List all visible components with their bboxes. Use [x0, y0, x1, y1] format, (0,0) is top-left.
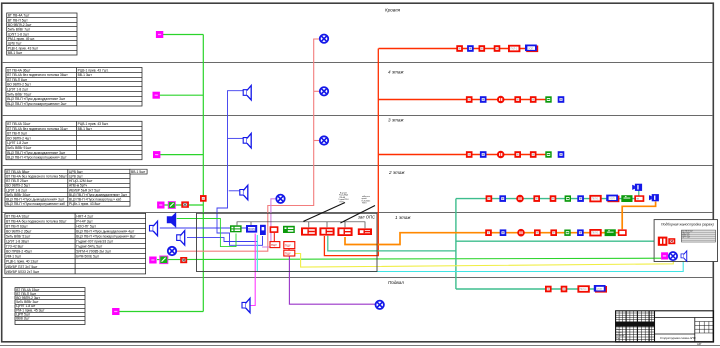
- svg-text:НМТ-4 2шт: НМТ-4 2шт: [76, 214, 93, 218]
- sheet edge line: [0, 345, 720, 347]
- svg-text:ВЦЗ ПВ-П «Пуск пожаротушения»: ВЦЗ ПВ-П «Пуск пожаротушения» каб: [6, 202, 65, 206]
- wire: blue stub 2fl speaker: [229, 190, 240, 192]
- svg-text:ВТ ПВ-4А без подвесного потолк: ВТ ПВ-4А без подвесного потолка 31шт: [7, 127, 68, 131]
- speaker 1fl B: [177, 231, 185, 246]
- wire: teal line to annunciator: [456, 240, 657, 242]
- detector 2fl 7: [577, 195, 584, 202]
- call point basement: [112, 308, 119, 315]
- svg-text:ЦРВ 5шт: ЦРВ 5шт: [69, 170, 83, 174]
- wire: 3fl detector chain: [378, 154, 548, 156]
- wire: green call-point trunk: [202, 35, 204, 312]
- svg-text:Изм.: Изм.: [616, 326, 621, 328]
- detector 2fl 2: [499, 195, 506, 202]
- svg-text:ВЦЗ ПВ-П «Пуск пожаротушения»: ВЦЗ ПВ-П «Пуск пожаротушения» 2шт: [7, 102, 67, 106]
- fire panel PPK-3: [337, 227, 352, 236]
- call point 4fl: [153, 92, 160, 99]
- wire: salmon stub 4fl lamp: [314, 90, 320, 92]
- power unit 1fl: [605, 229, 616, 236]
- start button 1fl: [160, 256, 168, 264]
- svg-text:ГУЗ-42 8шт: ГУЗ-42 8шт: [6, 245, 24, 249]
- svg-text:ЦУ9Т 1-8 2шт: ЦУ9Т 1-8 2шт: [6, 188, 27, 192]
- wire: cyan speaker line: [257, 235, 683, 272]
- svg-text:5иГь ВбВг 70шт: 5иГь ВбВг 70шт: [7, 92, 32, 96]
- value table: cable spec bsmt: [15, 288, 85, 325]
- horn sounder 2fl B: [649, 194, 659, 201]
- svg-text:ВТ ПВ-4А 31шт: ВТ ПВ-4А 31шт: [7, 122, 31, 126]
- wire: plum stub 2fl lamp: [262, 199, 276, 247]
- lamp 4fl: [320, 87, 328, 95]
- svg-text:ВТ ПВ-П 5шт: ВТ ПВ-П 5шт: [8, 18, 28, 22]
- module blue small: [260, 225, 266, 235]
- svg-text:А4Г: А4Г: [697, 342, 702, 346]
- control unit 2fl: [606, 195, 619, 203]
- svg-text:ВЦЗ ПВ-П «Пуск дымоудаления» 3: ВЦЗ ПВ-П «Пуск дымоудаления» 3шт: [69, 193, 127, 197]
- detector 4fl 6: [545, 96, 551, 102]
- detector 2fl 1: [486, 195, 493, 202]
- svg-text:Гъдвиг-54Гц 5шт: Гъдвиг-54Гц 5шт: [76, 245, 102, 249]
- speaker 1fl A: [150, 221, 158, 236]
- wire: purple lamp line basement: [289, 256, 375, 304]
- svg-text:ВТ ПВ-П 9шт: ВТ ПВ-П 9шт: [7, 132, 27, 136]
- detector 2fl row: [181, 201, 189, 207]
- detector roof 4: [494, 45, 501, 52]
- detector basement 2: [561, 286, 568, 293]
- svg-text:РЦВ-1 прив. 40 13шт: РЦВ-1 прив. 40 13шт: [6, 260, 39, 264]
- svg-text:ВЦЗ ПВ-П «Пуск дымоудаления» 4: ВЦЗ ПВ-П «Пуск дымоудаления» 4шт: [76, 229, 134, 233]
- wire: red link boxes: [288, 249, 290, 251]
- svg-text:ВО 9ВП9-2 35шт: ВО 9ВП9-2 35шт: [6, 229, 32, 233]
- svg-text:ВВ-1 5шт: ВВ-1 5шт: [8, 51, 23, 55]
- detector 4fl 3: [497, 96, 505, 104]
- value table: annunciator: [681, 230, 715, 242]
- detector 1fl 2: [500, 229, 507, 236]
- svg-text:ВТ ПВ-4А без подвесного потолк: ВТ ПВ-4А без подвесного потолка 36шт: [7, 73, 68, 77]
- detector 3fl 5: [530, 151, 537, 158]
- speaker annunciator: [681, 251, 687, 261]
- svg-text:ВВ-1 5шт: ВВ-1 5шт: [131, 170, 146, 174]
- svg-text:ЦУ9Т 1-8 38шт: ЦУ9Т 1-8 38шт: [6, 240, 29, 244]
- detector 3fl 6: [545, 151, 551, 157]
- siren 1fl: [618, 229, 627, 236]
- node: 3 floor line: [3, 115, 713, 117]
- detector 3fl 3: [497, 151, 505, 159]
- svg-text:ВЦЗ ПВ-П «Пуск пожаротушения»: ВЦЗ ПВ-П «Пуск пожаротушения» 8шт: [76, 235, 136, 239]
- detector 2fl 3: [516, 195, 524, 203]
- value table: cable spec roof: [7, 13, 77, 55]
- svg-text:ЦУ9Т 2шт: ЦУ9Т 2шт: [682, 237, 690, 239]
- call point roof: [156, 31, 163, 38]
- svg-text:РМ-1 прив. 49 шт.: РМ-1 прив. 49 шт.: [8, 37, 35, 41]
- wire: green stub inside annunciator: [654, 257, 661, 259]
- wire: green stub basement call point: [120, 311, 204, 313]
- svg-text:ВЦЗ ПВ-П «Пуск дымоудаления» 3: ВЦЗ ПВ-П «Пуск дымоудаления» 3шт: [7, 151, 65, 155]
- svg-text:ИМ-1 9шт: ИМ-1 9шт: [6, 255, 21, 259]
- fire panel PPK-1: [301, 227, 317, 235]
- svg-text:ВТ ПВ-4А без подвесного потолк: ВТ ПВ-4А без подвесного потолка 92шт: [6, 219, 67, 223]
- svg-text:Подборная жаностройка (зараж): Подборная жаностройка (зараж): [661, 222, 714, 226]
- control unit basement: [594, 285, 607, 293]
- detector on trunk 2fl: [200, 195, 207, 202]
- svg-text:ВТ ПВ-П 63шт: ВТ ПВ-П 63шт: [6, 224, 28, 228]
- node: control room outline: [197, 213, 378, 271]
- svg-text:5иГь ВбВг 7шт: 5иГь ВбВг 7шт: [8, 28, 31, 32]
- wire: salmon stub 3fl lamp: [314, 140, 320, 142]
- wire: basement notification chain: [456, 288, 598, 290]
- svg-text:ПЦУ: ПЦУ: [285, 243, 291, 247]
- detector 1fl row: [180, 257, 187, 263]
- lamp 1fl: [168, 247, 176, 255]
- detector 4fl 5: [530, 96, 537, 103]
- svg-text:БРМ-500Е 5шт: БРМ-500Е 5шт: [76, 255, 99, 259]
- wire: red link panel to box: [273, 233, 275, 242]
- svg-text:Утв.: Утв.: [616, 338, 621, 340]
- horn sounder 2fl A: [632, 184, 642, 191]
- callout leader B: [340, 206, 375, 224]
- speaker 2fl: [240, 185, 248, 200]
- svg-text:ВО 9ВП9-2 5шт: ВО 9ВП9-2 5шт: [7, 83, 31, 87]
- siren 2fl: [634, 195, 644, 202]
- value table: cable spec 2fl: [5, 169, 147, 206]
- svg-text:ВВВ 2шт: ВВВ 2шт: [16, 317, 30, 321]
- svg-text:ВЦЗ ПВ-П «Пуск дымоудаления» 3: ВЦЗ ПВ-П «Пуск дымоудаления» 3шт: [6, 198, 64, 202]
- wire: yellow lamp line: [295, 254, 674, 268]
- detector 3fl 4: [514, 151, 521, 158]
- wire: orange 1fl loop from panel: [345, 233, 485, 245]
- detector 1fl 1: [485, 229, 492, 236]
- svg-text:ВТ ПВ-4А 36шт: ВТ ПВ-4А 36шт: [7, 68, 31, 72]
- svg-text:ИВУВР 5ЛЗЗ 2х7 5шт: ИВУВР 5ЛЗЗ 2х7 5шт: [6, 270, 39, 274]
- svg-text:ВТ ПВ-4А 7шт: ВТ ПВ-4А 7шт: [8, 14, 30, 18]
- svg-text:ЦУ9Т 1-8 3шт: ЦУ9Т 1-8 3шт: [8, 32, 29, 36]
- call point 3fl: [153, 151, 160, 158]
- wire: teal riser: [455, 199, 457, 289]
- svg-text:ВО 9ВП9-2 5шт: ВО 9ВП9-2 5шт: [6, 184, 30, 188]
- wire: blue stub 1fl speaker B: [187, 238, 258, 242]
- start button 2fl: [168, 202, 175, 209]
- svg-text:ПЦУ: ПЦУ: [285, 252, 291, 256]
- svg-text:ЦРВ 7шт: ЦРВ 7шт: [8, 42, 22, 46]
- svg-text:ВО 9ВП9-2 2шт: ВО 9ВП9-2 2шт: [8, 23, 32, 27]
- wire: teal link from panel 2: [328, 236, 456, 251]
- svg-text:ИВУВР ПЗТ 3х7 5шт: ИВУВР ПЗТ 3х7 5шт: [6, 265, 38, 269]
- svg-text:5иГь ВбВг 91шт: 5иГь ВбВг 91шт: [7, 146, 32, 150]
- svg-text:РЦВг-1 прив. 43 8шт: РЦВг-1 прив. 43 8шт: [69, 202, 101, 206]
- wire: green 2fl row: [164, 204, 203, 206]
- lamp annunciator: [669, 252, 677, 260]
- callout note A: [339, 193, 350, 204]
- wire: blue speaker riser: [217, 91, 263, 246]
- detector 2fl 4: [533, 195, 540, 202]
- relay module roof: [508, 45, 520, 52]
- value cell: ВВ-1: [130, 169, 147, 174]
- value table: cable spec 1fl: [5, 213, 146, 274]
- wire: salmon lamp trunk: [177, 39, 320, 251]
- wire: green stub solid speaker: [177, 219, 236, 247]
- wire: panel bus bracket: [237, 222, 365, 229]
- svg-text:НОО-ПГ 5шт: НОО-ПГ 5шт: [76, 224, 96, 228]
- detector 4fl 2: [480, 96, 487, 103]
- svg-text:ВОРС: ВОРС: [248, 227, 255, 231]
- speaker basement A: [242, 298, 250, 313]
- detector 2fl 5: [550, 195, 557, 202]
- loudspeaker solid 1fl: [167, 213, 175, 227]
- wire: red alarm loop trunk: [324, 49, 378, 256]
- svg-text:3 этаж: 3 этаж: [388, 118, 404, 123]
- wire: magenta speaker line: [251, 234, 256, 306]
- speaker 4fl: [243, 86, 251, 101]
- svg-text:ВТ ПВ-П 8шт: ВТ ПВ-П 8шт: [7, 78, 27, 82]
- svg-text:1 этаж: 1 этаж: [395, 215, 411, 220]
- terminal box C: [284, 250, 295, 256]
- svg-text:РЦВ-1 прив. 43 9шт: РЦВ-1 прив. 43 9шт: [8, 46, 39, 50]
- detector 1fl 6: [564, 230, 570, 236]
- svg-text:4 этаж: 4 этаж: [388, 70, 404, 75]
- control unit roof: [525, 45, 538, 53]
- node: annunciator enclosure: [654, 220, 717, 262]
- svg-text:РЦВ-1 прив. 43 7шт.: РЦВ-1 прив. 43 7шт.: [78, 68, 109, 72]
- svg-text:зал ОПС: зал ОПС: [357, 215, 376, 220]
- detector 4fl 4: [514, 96, 521, 103]
- detector roof 1: [456, 45, 463, 52]
- svg-text:Кровля: Кровля: [385, 8, 401, 13]
- call point 2fl: [157, 202, 164, 209]
- call point annunciator: [661, 252, 668, 259]
- svg-text:АПВ-м 5рГч: АПВ-м 5рГч: [69, 184, 87, 188]
- svg-text:Подвал: Подвал: [388, 280, 404, 285]
- call point 1fl: [149, 257, 156, 264]
- svg-text:ПЦУ: ПЦУ: [271, 243, 277, 247]
- node: 1 floor line: [3, 212, 713, 214]
- svg-text:ЦУ9Т 1-8 2шт: ЦУ9Т 1-8 2шт: [7, 88, 28, 92]
- detector 3fl 2: [480, 151, 487, 158]
- wire: 4fl detector chain: [378, 99, 548, 101]
- svg-text:РЦВ-1 прив. 43 5шт.: РЦВ-1 прив. 43 5шт.: [78, 122, 109, 126]
- wire: green long line to annunciator box: [157, 258, 661, 259]
- wire: 2fl notification chain: [456, 198, 640, 200]
- title block frame: [616, 311, 714, 342]
- detector roof 2: [467, 45, 474, 52]
- repeater unit A: [658, 237, 668, 246]
- svg-text:ВТ ПВ-4А 58шт: ВТ ПВ-4А 58шт: [6, 170, 30, 174]
- relay module basement: [577, 285, 589, 292]
- detector basement 1: [545, 286, 552, 293]
- lamp basement: [376, 301, 384, 309]
- value table: cable spec 4fl: [6, 68, 142, 107]
- svg-text:5ИГМ-4 У9085-2Ы 3шт: 5ИГМ-4 У9085-2Ы 3шт: [76, 250, 111, 254]
- svg-text:Гъдвиг-007 прив.93 2шт: Гъдвиг-007 прив.93 2шт: [76, 240, 113, 244]
- svg-text:ВО ПРВ9-2 45шт: ВО ПРВ9-2 45шт: [6, 250, 32, 254]
- wire: 1fl detector chain: [485, 232, 622, 234]
- svg-text:ВВ-1 3шт: ВВ-1 3шт: [78, 73, 93, 77]
- module red KOM: [270, 226, 279, 233]
- svg-text:ВЦЗ ПВ-П «Пуск пожаротушения»: ВЦЗ ПВ-П «Пуск пожаротушения» 2шт: [7, 156, 67, 160]
- terminal box A: [270, 242, 280, 248]
- wire: blue stub 1fl speaker A: [160, 227, 246, 229]
- detector 3fl 7: [558, 151, 565, 158]
- svg-text:ВВ-1 5шт: ВВ-1 5шт: [78, 127, 93, 131]
- svg-text:5иГь ВбВг 30шт: 5иГь ВбВг 30шт: [6, 193, 31, 197]
- relay module 1fl: [589, 229, 601, 236]
- terminal box B: [284, 242, 295, 249]
- svg-text:ИВУВР 5ЬЯ 3х7 5шт: ИВУВР 5ЬЯ 3х7 5шт: [69, 188, 101, 192]
- node: 4 floor line: [3, 62, 713, 64]
- value table: cable spec 3fl: [6, 121, 142, 159]
- detector 2fl 6: [565, 195, 571, 201]
- relay module 2fl: [589, 195, 601, 202]
- svg-text:ВТ ПВ-4А без подвесного потолк: ВТ ПВ-4А без подвесного потолка 58шт: [6, 175, 67, 179]
- node: basement line: [3, 277, 713, 279]
- wire: orange sounder link: [622, 202, 655, 230]
- annunciator green B: [283, 226, 295, 233]
- title block texts: [616, 326, 625, 340]
- fire panel PPK-2: [319, 227, 334, 235]
- svg-text:НЗГО: НЗГО: [362, 203, 367, 205]
- fire panel PPK-4: [358, 228, 372, 235]
- detector 1fl 7: [577, 229, 584, 236]
- lamp 2fl: [276, 195, 284, 203]
- svg-text:ВО 9ВП9-2 4шт: ВО 9ВП9-2 4шт: [7, 136, 31, 140]
- callout leader A: [303, 203, 345, 222]
- detector 1fl 5: [550, 229, 557, 236]
- svg-text:Пров.: Пров.: [616, 332, 622, 334]
- svg-text:НГЦО-12М 4шт: НГЦО-12М 4шт: [69, 179, 93, 183]
- detector roof 3: [479, 45, 486, 52]
- detector 4fl 7: [558, 96, 565, 103]
- svg-text:Лист: Лист: [616, 329, 621, 331]
- svg-text:Н.контр.: Н.контр.: [616, 335, 625, 337]
- lamp 3fl: [320, 136, 328, 144]
- detector 1fl 4: [534, 229, 541, 236]
- detector 3fl 1: [466, 151, 473, 158]
- speaker 3fl: [243, 133, 251, 148]
- svg-text:НЗГО: НЗГО: [340, 201, 345, 203]
- wire: teal stub sounder 2fl: [638, 191, 640, 197]
- svg-text:ВТ ПВ-П 25шт: ВТ ПВ-П 25шт: [6, 179, 28, 183]
- svg-text:5иГь ВбВг 51шт: 5иГь ВбВг 51шт: [6, 235, 31, 239]
- repeater unit B: [668, 238, 675, 244]
- wire: blue stub 3fl speaker: [228, 137, 244, 139]
- wire: roof detector chain: [379, 48, 532, 50]
- svg-text:ЦРВ 3шт: ЦРВ 3шт: [69, 175, 83, 179]
- callout note B: [362, 196, 371, 205]
- detector 1fl 3: [517, 229, 525, 237]
- detector 4fl 1: [466, 96, 473, 103]
- node: 2 floor line: [3, 165, 713, 167]
- wire: green stub roof call point: [163, 34, 203, 36]
- wire: green stub 3fl call point: [160, 154, 203, 156]
- svg-text:ВЦЗ ПВ-П «Пуск дымоудаления» 3: ВЦЗ ПВ-П «Пуск дымоудаления» 3шт: [7, 97, 65, 101]
- svg-text:ЦУ9Т 1-8 2шт: ЦУ9Т 1-8 2шт: [7, 141, 28, 145]
- control panel blue (BOPC): [246, 225, 257, 233]
- svg-text:2 этаж: 2 этаж: [388, 170, 405, 175]
- svg-text:ВТ ПВ-4А 92шт: ВТ ПВ-4А 92шт: [6, 214, 30, 218]
- svg-text:Структурная схема АПС: Структурная схема АПС: [660, 336, 697, 340]
- wire: green stub 4fl call point: [160, 94, 204, 96]
- lamp roof: [320, 35, 328, 43]
- annunciator green A: [230, 225, 242, 232]
- svg-text:РЧ-4Р 3шт: РЧ-4Р 3шт: [76, 219, 93, 223]
- power unit 2fl: [621, 195, 632, 202]
- svg-text:ВЦЗ ПВ-П «Пуск пожаротуш.» каб: ВЦЗ ПВ-П «Пуск пожаротуш.» каб: [69, 198, 121, 202]
